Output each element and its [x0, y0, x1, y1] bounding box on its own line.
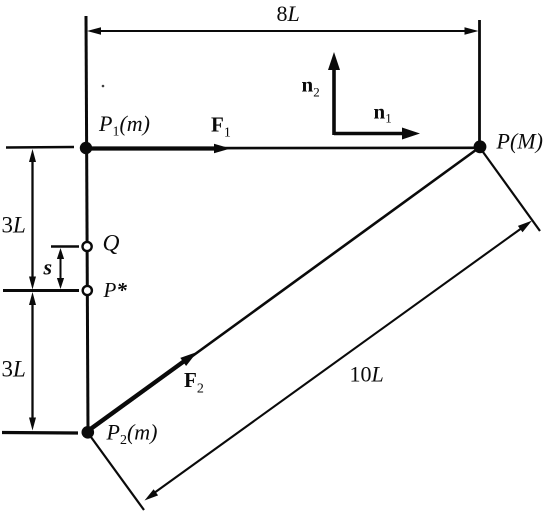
svg-text:P*: P* — [103, 278, 128, 302]
svg-text:Q: Q — [103, 231, 120, 257]
svg-text:P2(m): P2(m) — [106, 420, 158, 449]
svg-text:3L: 3L — [2, 213, 26, 238]
svg-text:P(M): P(M) — [496, 129, 543, 154]
svg-text:s: s — [43, 255, 53, 280]
svg-text:10L: 10L — [350, 362, 384, 387]
svg-text:3L: 3L — [2, 357, 26, 382]
svg-text:8L: 8L — [277, 1, 300, 26]
svg-text:P1(m): P1(m) — [98, 111, 150, 140]
